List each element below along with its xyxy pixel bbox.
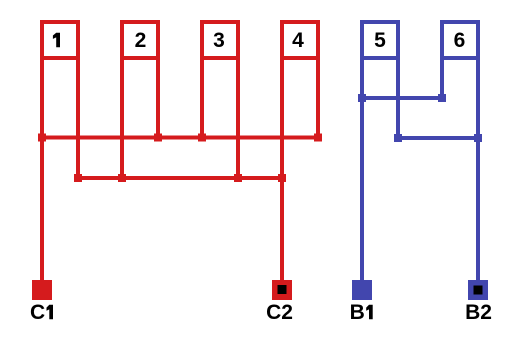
terminal B1 (solid pad) (352, 280, 372, 300)
svg-text:C2: C2 (266, 301, 293, 324)
coil 4 box (282, 22, 318, 58)
wire: coil4 right pin down to bus C1 (316, 58, 320, 138)
junction: bus C2 / coil1 right (74, 174, 82, 182)
junction: bus C1 / coil1 left (38, 134, 46, 142)
wire: blue lower bus (coil5 right to coil6 right) (398, 136, 478, 140)
wire: coil3 left pin down to bus C1 (200, 58, 204, 138)
coil 1 label "1" (53, 33, 60, 48)
junction: blue upper bus / coil6 left (438, 94, 446, 102)
svg-text:6: 6 (454, 29, 466, 52)
terminal B2 (pad) (468, 280, 488, 300)
wire: coil2 right pin down to bus C1 (156, 58, 160, 138)
junction: blue lower bus / coil6 right (474, 134, 482, 142)
junction: blue upper bus / coil5 left (358, 94, 366, 102)
coil 2 box (122, 22, 158, 58)
terminal B2 polarity mark (black square) (474, 286, 483, 295)
svg-text:5: 5 (374, 29, 386, 52)
wire: red bus C2 (horizontal) (78, 176, 282, 180)
coil 3 box (202, 22, 238, 58)
coil 5 box (362, 22, 398, 58)
wire: red bus C1 (horizontal) (42, 136, 318, 140)
wire: coil6 right pin down to terminal B2 (476, 58, 480, 280)
label B1 (350, 301, 373, 324)
coil 1 box (42, 22, 78, 58)
terminal C1 (solid pad) (32, 280, 52, 300)
wire: coil6 left pin down to blue upper bus (440, 58, 444, 98)
label C1 (30, 301, 53, 324)
svg-text:4: 4 (292, 29, 304, 52)
junction: bus C1 / coil2 right (154, 134, 162, 142)
wire: coil1 left pin down to terminal C1 (40, 58, 44, 280)
junction: bus C2 / coil4 left (278, 174, 286, 182)
terminal C2 polarity mark (black square) (278, 285, 287, 294)
junction: bus C2 / coil3 right (234, 174, 242, 182)
wire: blue upper bus (coil5 left to coil6 left) (362, 96, 442, 100)
junction: bus C1 / coil4 right (314, 134, 322, 142)
svg-text:B: B (350, 301, 365, 324)
svg-text:B2: B2 (465, 301, 492, 324)
wire: coil4 left pin down to terminal C2 (280, 58, 284, 280)
wire: coil5 left pin down to terminal B1 (360, 58, 364, 280)
terminal C2 (pad) (272, 280, 292, 300)
svg-text:C: C (30, 301, 45, 324)
junction: blue lower bus / coil5 right (394, 134, 402, 142)
svg-text:2: 2 (135, 29, 147, 52)
wire: coil1 right pin down to bus C2 (76, 58, 80, 178)
coil 6 box (442, 22, 478, 58)
junction: bus C2 / coil2 left (118, 174, 126, 182)
wire: coil5 right pin down to blue lower bus (396, 58, 400, 138)
svg-text:3: 3 (213, 29, 225, 52)
wire: coil2 left pin down to bus C2 (120, 58, 124, 178)
junction: bus C1 / coil3 left (198, 134, 206, 142)
wire: coil3 right pin down to bus C2 (236, 58, 240, 178)
